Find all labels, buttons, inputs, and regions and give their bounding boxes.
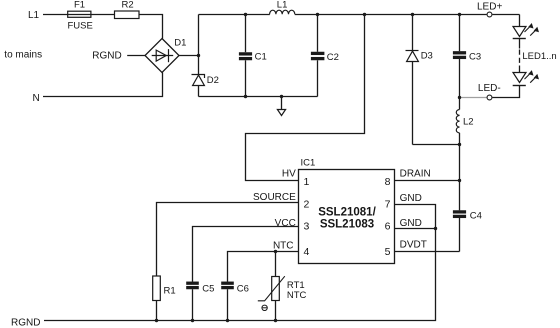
wire RGND to bridge left bbox=[127, 55, 145, 57]
top rail bbox=[199, 14, 520, 16]
svg-text:RGND: RGND bbox=[11, 317, 40, 328]
svg-text:FUSE: FUSE bbox=[68, 20, 93, 31]
svg-text:R2: R2 bbox=[122, 0, 134, 11]
wire L2 to DRAIN node bbox=[459, 145, 461, 181]
svg-text:5: 5 bbox=[385, 246, 391, 258]
wire node riser to top rail bbox=[198, 15, 200, 56]
wire SOURCE pin 2 bbox=[157, 203, 299, 277]
capacitor C5 bbox=[186, 283, 199, 320]
svg-text:R1: R1 bbox=[164, 286, 176, 297]
wire DRAIN pin 8 bbox=[395, 180, 460, 182]
svg-text:LED+: LED+ bbox=[477, 1, 502, 12]
svg-text:D2: D2 bbox=[207, 75, 219, 86]
svg-text:HV: HV bbox=[282, 169, 296, 180]
terminal LED+ bbox=[487, 12, 492, 17]
wire N to bridge bottom bbox=[43, 73, 163, 97]
wire D3 bottom to L2 bottom bbox=[413, 144, 460, 146]
wire VCC pin 3 bbox=[193, 227, 299, 282]
wire R2 to bridge top bbox=[139, 15, 163, 39]
svg-text:7: 7 bbox=[385, 199, 391, 211]
svg-text:SOURCE: SOURCE bbox=[253, 192, 296, 203]
wire DVDT pin 5 bbox=[395, 251, 460, 253]
LED D5 bbox=[513, 70, 539, 85]
svg-text:D3: D3 bbox=[421, 50, 433, 61]
thermistor symbol theta bbox=[262, 305, 267, 310]
svg-text:2: 2 bbox=[304, 199, 310, 211]
bridge rectifier D1 bbox=[145, 39, 179, 73]
diode D3 bbox=[406, 15, 419, 145]
capacitor C4 bbox=[453, 181, 466, 252]
resistor R1 bbox=[153, 276, 161, 301]
capacitor C1 bbox=[239, 15, 252, 97]
svg-text:C6: C6 bbox=[237, 283, 249, 294]
svg-text:3: 3 bbox=[304, 221, 310, 233]
svg-text:8: 8 bbox=[385, 176, 391, 188]
wire NTC pin 4 bbox=[228, 252, 299, 282]
svg-text:LED1..n: LED1..n bbox=[522, 51, 556, 62]
wire L1 terminal to fuse and R2 bbox=[43, 14, 115, 16]
svg-text:D1: D1 bbox=[174, 37, 186, 48]
svg-text:4: 4 bbox=[304, 246, 310, 258]
svg-text:SSL21081/: SSL21081/ bbox=[318, 206, 376, 218]
wire R1 to RGND rail bbox=[156, 301, 158, 321]
IC1 SSL21081 box bbox=[299, 170, 395, 264]
wire LED string bottom bbox=[493, 86, 520, 98]
svg-text:LED-: LED- bbox=[478, 83, 501, 94]
svg-text:L1: L1 bbox=[277, 0, 288, 10]
wire GND pin 6 bbox=[395, 228, 436, 230]
svg-text:to mains: to mains bbox=[4, 50, 42, 61]
wire HV branch bbox=[246, 15, 365, 181]
svg-text:DRAIN: DRAIN bbox=[400, 169, 431, 180]
terminal LED- bbox=[487, 95, 492, 100]
wire LED- to C3 node bbox=[460, 97, 487, 99]
svg-text:L1: L1 bbox=[28, 10, 40, 21]
svg-text:C4: C4 bbox=[470, 211, 482, 222]
svg-text:DVDT: DVDT bbox=[400, 240, 427, 251]
svg-text:N: N bbox=[33, 93, 40, 104]
svg-text:L2: L2 bbox=[463, 116, 474, 127]
svg-text:NTC: NTC bbox=[273, 240, 294, 251]
capacitor C6 bbox=[221, 283, 234, 320]
diode D2 bbox=[192, 56, 205, 97]
inductor L2 bbox=[456, 98, 459, 145]
wire GND pin 7 bbox=[44, 205, 436, 321]
wire bridge right to node bbox=[179, 55, 199, 57]
svg-text:C3: C3 bbox=[469, 51, 481, 62]
svg-text:IC1: IC1 bbox=[301, 158, 316, 169]
svg-text:C1: C1 bbox=[255, 52, 267, 63]
svg-text:GND: GND bbox=[400, 218, 422, 229]
thermistor RT1 bbox=[258, 252, 285, 321]
inductor L1 bbox=[270, 10, 295, 14]
svg-text:RGND: RGND bbox=[92, 51, 121, 62]
capacitor C2 bbox=[311, 15, 325, 97]
svg-text:C5: C5 bbox=[202, 283, 214, 294]
fuse F1 bbox=[68, 11, 91, 17]
ground bbox=[277, 97, 285, 116]
svg-text:VCC: VCC bbox=[275, 218, 296, 229]
svg-text:1: 1 bbox=[304, 176, 310, 188]
svg-text:GND: GND bbox=[400, 193, 422, 204]
svg-text:F1: F1 bbox=[74, 0, 85, 11]
svg-text:NTC: NTC bbox=[287, 290, 307, 301]
resistor R2 bbox=[115, 11, 140, 19]
svg-text:SSL21083: SSL21083 bbox=[320, 219, 374, 231]
LED D4 bbox=[513, 23, 539, 39]
capacitor C3 bbox=[453, 15, 466, 98]
svg-text:C2: C2 bbox=[327, 52, 339, 63]
wire bottom rail D2 to C2 bbox=[199, 96, 318, 98]
wire and dashed continuation bbox=[519, 39, 521, 73]
wire LED string top bbox=[519, 15, 521, 27]
svg-text:6: 6 bbox=[385, 221, 391, 233]
